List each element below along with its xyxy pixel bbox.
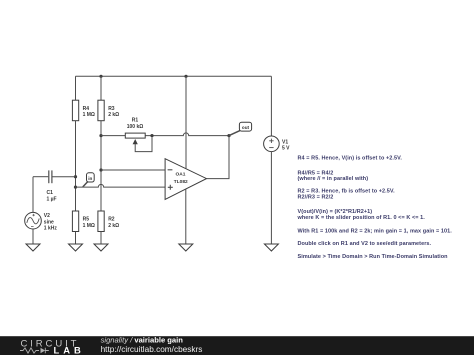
- ground under V2: [26, 244, 40, 251]
- svg-text:R2//R3 = R2/2: R2//R3 = R2/2: [298, 194, 334, 200]
- wire in-node column (R4 to R5): [75, 121, 77, 211]
- ground under R2: [94, 244, 108, 251]
- wire +5V top rail: [76, 75, 272, 77]
- wire R1 right terminal to out node (hop over V+ wire): [145, 133, 229, 136]
- svg-text:out: out: [242, 125, 250, 130]
- wire minus input: [101, 169, 165, 171]
- svg-text:C1: C1: [47, 190, 54, 196]
- svg-text:TL082: TL082: [174, 179, 188, 185]
- svg-text:2 kΩ: 2 kΩ: [108, 112, 119, 118]
- ground under R5: [69, 244, 83, 251]
- svg-text:R5: R5: [83, 217, 90, 223]
- junction fb column to minus-input wire: [99, 168, 102, 171]
- source V2 sine 1 kHz: [25, 177, 58, 244]
- svg-text:1 MΩ: 1 MΩ: [83, 223, 95, 229]
- op-amp OA1 TL082: [165, 159, 206, 200]
- svg-text:1 MΩ: 1 MΩ: [83, 112, 95, 118]
- annotation notes: [297, 156, 453, 261]
- wire fb to R1 left terminal: [101, 135, 125, 137]
- svg-text:sine: sine: [44, 219, 54, 225]
- svg-text:R3: R3: [108, 106, 115, 112]
- svg-text:in: in: [88, 176, 92, 181]
- svg-text:1 kHz: 1 kHz: [44, 226, 58, 232]
- resistor R5 1 MΩ: [72, 211, 95, 244]
- svg-text:R1: R1: [132, 118, 139, 124]
- svg-text:LAB: LAB: [54, 345, 85, 355]
- svg-text:R4 = R5. Hence, V(in) is offse: R4 = R5. Hence, V(in) is offset to +2.5V…: [298, 156, 403, 162]
- svg-text:R2: R2: [108, 217, 115, 223]
- svg-text:100 kΩ: 100 kΩ: [127, 124, 144, 130]
- junction fb column to R1 wire: [99, 134, 102, 137]
- svg-text:R4: R4: [83, 106, 90, 112]
- svg-text:With R1 = 100k and R2 = 2k; mi: With R1 = 100k and R2 = 2k; min gain = 1…: [298, 229, 453, 235]
- source V1 5 V: [264, 76, 291, 244]
- resistor R2 2 kΩ: [98, 211, 119, 244]
- svg-text:Simulate > Time Domain > Run T: Simulate > Time Domain > Run Time-Domain…: [298, 254, 449, 260]
- svg-text:Double click on R1 and V2 to s: Double click on R1 and V2 to see/edit pa…: [298, 241, 432, 247]
- junction C1 to in column: [74, 175, 77, 178]
- svg-text:where K = the slider position: where K = the slider position of R1. 0 <…: [297, 215, 426, 221]
- svg-text:1 µF: 1 µF: [47, 197, 57, 203]
- junction plus-input wire to in column: [74, 186, 77, 189]
- svg-text:V1: V1: [282, 139, 288, 145]
- potentiometer R1 100 kΩ: [125, 118, 152, 152]
- wire op-amp V- to ground: [185, 189, 187, 244]
- ground under op-amp: [179, 244, 193, 251]
- svg-text:http://circuitlab.com/cbeskrs: http://circuitlab.com/cbeskrs: [101, 345, 203, 354]
- svg-text:5 V: 5 V: [282, 146, 290, 152]
- resistor R3 2 kΩ: [98, 76, 119, 120]
- node label in: [83, 173, 94, 187]
- junction rail to op-amp V+: [184, 75, 187, 78]
- capacitor C1 1 µF: [33, 170, 76, 202]
- junction wiper to out wire: [150, 134, 153, 137]
- svg-text:2 kΩ: 2 kΩ: [108, 223, 119, 229]
- footer bar: [0, 336, 474, 355]
- junction rail to R3: [99, 75, 102, 78]
- wire op-amp V+ from rail: [185, 76, 187, 168]
- wire plus input (hop over fb column): [76, 184, 166, 187]
- wire fb column (R3 to R2): [100, 121, 102, 211]
- junction out corner: [227, 134, 230, 137]
- ground under V1: [264, 244, 278, 251]
- resistor R4 1 MΩ: [72, 76, 95, 120]
- svg-text:signality / vairiable gain: signality / vairiable gain: [101, 336, 184, 345]
- svg-text:V2: V2: [44, 213, 50, 219]
- svg-text:(where // = in parallel with): (where // = in parallel with): [298, 176, 369, 182]
- node label out: [229, 122, 251, 135]
- svg-text:OA1: OA1: [176, 172, 186, 178]
- wire op-amp output to out node: [207, 136, 230, 179]
- svg-text:V(out)/V(in) = (K*2*R1/R2+1): V(out)/V(in) = (K*2*R1/R2+1): [298, 209, 373, 215]
